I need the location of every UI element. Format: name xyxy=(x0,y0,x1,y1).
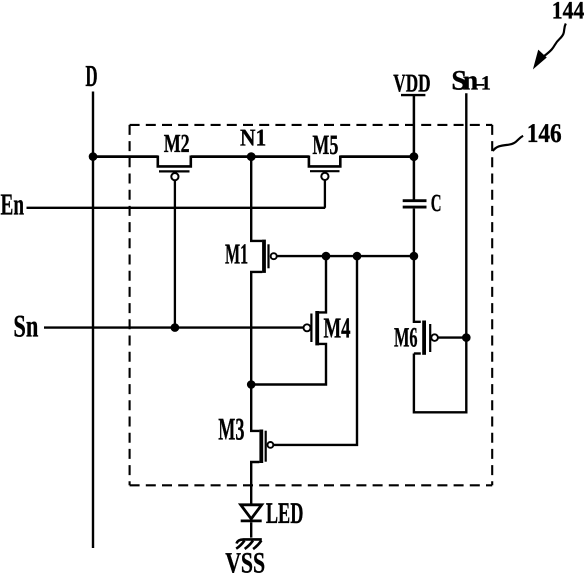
svg-text:M3: M3 xyxy=(218,412,244,447)
node dot on D line xyxy=(89,152,98,161)
wire M5 gate to En xyxy=(324,180,326,208)
node dot on VDD at rail xyxy=(410,152,419,161)
wire N1 column to M3 xyxy=(251,385,259,431)
wire VDD column to M6 xyxy=(414,256,421,322)
power VDD label xyxy=(393,68,430,97)
node dot gate row / VDD column xyxy=(410,252,419,261)
svg-text:VSS: VSS xyxy=(225,548,265,573)
svg-text:En: En xyxy=(1,188,25,222)
capacitor C xyxy=(403,201,427,207)
wire D data line xyxy=(92,92,94,549)
wire N1 column to M1 xyxy=(251,157,262,241)
wire M6 source to bottom loop xyxy=(414,352,421,354)
transistor M5 xyxy=(309,156,340,180)
leader squiggle for 146 xyxy=(493,136,523,151)
diode LED xyxy=(241,505,262,521)
svg-text:Sn: Sn xyxy=(13,309,38,344)
transistor M2 xyxy=(158,156,191,181)
wire M6 gate to Sn-1 xyxy=(438,336,466,338)
wire M2 gate to Sn xyxy=(174,180,176,327)
node dot M2 gate on Sn xyxy=(171,323,180,332)
dashed box 146 (pixel circuit boundary) xyxy=(130,125,493,485)
svg-text:N1: N1 xyxy=(240,126,266,152)
wire Sn-1 scan line xyxy=(414,93,466,412)
svg-text:M6: M6 xyxy=(394,323,418,354)
leader arrow for 144 xyxy=(534,24,566,69)
node N1 dot xyxy=(247,152,256,161)
wire M1 source down to mirror row xyxy=(251,272,262,385)
wire M3 gate riser to gate row xyxy=(273,256,357,445)
wire M3 source to LED xyxy=(251,462,259,504)
svg-text:M1: M1 xyxy=(225,239,248,271)
transistor M4 xyxy=(304,311,318,345)
svg-text:M4: M4 xyxy=(324,313,351,345)
wire M4 drain from gate row xyxy=(319,256,326,312)
wire VDD supply column xyxy=(413,96,416,200)
transistor M6 xyxy=(424,321,438,355)
wire Sn xyxy=(44,326,304,328)
transistor M1 xyxy=(264,240,277,273)
wire capacitor bottom to gate row xyxy=(413,209,415,257)
wire En xyxy=(27,207,326,209)
node dot M6 gate on Sn-1 xyxy=(462,333,471,342)
svg-text:144: 144 xyxy=(552,0,584,25)
wire M4 source to mirror row xyxy=(251,344,326,385)
svg-text:C: C xyxy=(431,190,442,217)
wire M1 gate row to VDD column xyxy=(277,255,414,257)
transistor M3 xyxy=(261,430,273,464)
svg-text:M2: M2 xyxy=(164,129,190,158)
svg-text:VDD: VDD xyxy=(393,68,430,97)
ground VSS symbol xyxy=(236,539,262,549)
svg-text:D: D xyxy=(85,59,97,93)
node dot gate row / M3 riser xyxy=(353,252,362,261)
node dot mirror row on N1 column xyxy=(247,380,256,389)
wire LED cathode to VSS xyxy=(250,522,252,537)
node dot gate row / M4 xyxy=(322,252,331,261)
svg-text:146: 146 xyxy=(527,118,562,148)
svg-text:LED: LED xyxy=(266,497,304,530)
wire top rail (D to VDD through M2, N1, M5) xyxy=(93,155,414,158)
svg-text:M5: M5 xyxy=(312,130,338,161)
